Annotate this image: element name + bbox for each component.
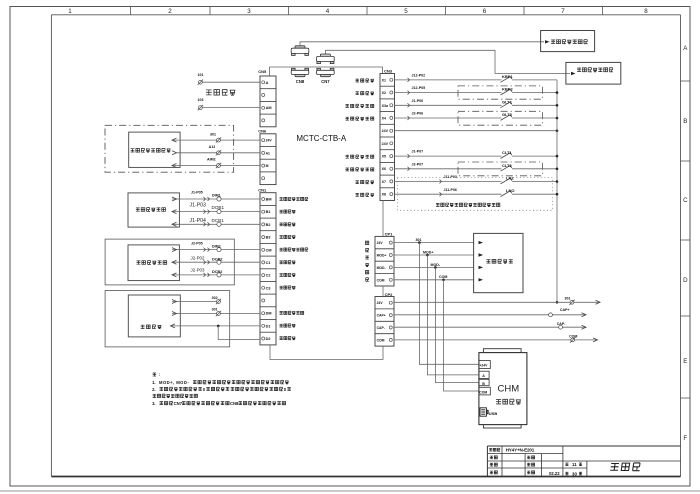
wire weighing AIM2 to CN6 M <box>172 158 260 169</box>
svg-text:AIM2: AIM2 <box>207 158 216 162</box>
CHM USB port icon <box>480 408 497 416</box>
svg-text:KBP2: KBP2 <box>502 87 513 92</box>
box arrival gong enclosure <box>105 291 230 347</box>
svg-text:CM: CM <box>266 248 272 252</box>
svg-text:CLT1: CLT1 <box>502 150 512 155</box>
svg-text:4: 4 <box>326 8 330 15</box>
svg-text:MCTC-CTB-A: MCTC-CTB-A <box>296 134 346 143</box>
junctions on switch return bus <box>556 91 559 303</box>
svg-text:6: 6 <box>483 8 487 15</box>
svg-text:COM: COM <box>479 390 487 394</box>
svg-text:X6: X6 <box>382 167 386 171</box>
wire cable from CN7 plug to command board <box>325 50 570 73</box>
wire CHM A drop <box>427 255 479 375</box>
svg-text:DOB1: DOB1 <box>212 205 225 210</box>
wire CP2 bottom to CN1 bottom <box>270 345 383 360</box>
svg-text:X1: X1 <box>382 78 386 82</box>
connector CN8 label <box>296 79 305 84</box>
wire CP2 COM out <box>394 334 598 342</box>
junction D1-D2 tie <box>217 325 220 328</box>
svg-text:J11-P06: J11-P06 <box>444 188 457 192</box>
lighting control label <box>206 89 235 95</box>
svg-text:J2-P03: J2-P03 <box>191 268 205 273</box>
svg-text:X7: X7 <box>382 180 386 184</box>
connector CN7 socket half <box>317 68 335 76</box>
connector CN3 terminal block <box>380 69 395 201</box>
svg-text:J1-P03: J1-P03 <box>190 203 207 209</box>
svg-text:101: 101 <box>198 73 204 77</box>
svg-text:D: D <box>683 277 688 284</box>
wire 24V feed to switch bus <box>395 130 558 132</box>
svg-text:CAP+: CAP+ <box>560 308 570 312</box>
frame column ticks <box>131 7 603 15</box>
svg-text:F: F <box>683 435 687 442</box>
wire CP1 MOD+ to display board <box>394 250 474 255</box>
svg-text:0: 0 <box>284 387 287 392</box>
svg-text:B1: B1 <box>266 210 271 214</box>
svg-text:D2: D2 <box>266 337 271 341</box>
svg-text:24V: 24V <box>266 139 273 143</box>
svg-text:103: 103 <box>198 98 204 102</box>
svg-text:J2-P07: J2-P07 <box>412 162 424 166</box>
connector CN7 label <box>321 79 330 84</box>
svg-text:+24V: +24V <box>480 364 489 368</box>
svg-text:HY4Y+N-E201: HY4Y+N-E201 <box>506 448 535 453</box>
wire X8 overload signal J11-P06 switch LNO <box>395 188 558 197</box>
box analog load weighing device dash-dot enclosure <box>105 125 234 172</box>
box main operation panel command board <box>566 62 621 84</box>
svg-text:X8: X8 <box>382 193 386 197</box>
svg-text:CN3: CN3 <box>384 69 393 74</box>
wire CP2 CAP+ out <box>394 308 586 317</box>
CN1 terminal function labels <box>280 197 308 339</box>
svg-text:301: 301 <box>565 296 571 300</box>
wire top bus from CN5 to CN3 <box>269 67 382 76</box>
wire CP1 to CP2 stem <box>382 286 384 297</box>
wire front door DIM1 J1-P05 to CN1 BM <box>172 190 260 201</box>
svg-text:C3: C3 <box>266 286 271 290</box>
wire cable from CN8 plug to command board <box>300 42 544 46</box>
connector CP2 terminal block <box>375 292 394 346</box>
wire arrival gong 301 to CN1 DM <box>172 308 260 317</box>
wire rear door DCB2 J2-P03 to CN1 C2 <box>172 268 260 277</box>
connector CN6 terminal block <box>258 129 276 185</box>
svg-text:J1-P04: J1-P04 <box>190 218 207 224</box>
svg-text:COM: COM <box>569 334 577 338</box>
junction CP1 24V tap <box>418 241 421 244</box>
svg-text:CN7: CN7 <box>321 79 330 84</box>
svg-text:24V: 24V <box>377 241 384 245</box>
svg-text:M: M <box>266 164 269 168</box>
svg-text:MOD+, MOD-: MOD+, MOD- <box>159 380 189 385</box>
MCTC-CTB-A board label <box>296 134 346 143</box>
svg-text:LNZ: LNZ <box>506 176 514 181</box>
box auxiliary operation panel command board <box>541 31 595 52</box>
svg-text:CLT2: CLT2 <box>502 163 512 168</box>
svg-text:0: 0 <box>203 387 206 392</box>
title block date row <box>490 471 582 477</box>
svg-text:5: 5 <box>404 8 408 15</box>
svg-text:302: 302 <box>212 296 218 300</box>
svg-text:J2-P02: J2-P02 <box>191 255 205 260</box>
wire switch return bus <box>556 80 558 302</box>
svg-text:DIM1: DIM1 <box>212 194 221 198</box>
svg-text:B: B <box>482 382 485 386</box>
wire X3o front door open limit J1-P06 switch GLT1 <box>395 99 558 108</box>
junction 24V bus <box>556 129 559 132</box>
svg-text:DM: DM <box>266 312 272 316</box>
car display communication vertical label <box>365 241 368 281</box>
box car display board <box>474 233 523 292</box>
svg-text:BM: BM <box>266 198 272 202</box>
wire rear door DIM2 J2-P05 to CN1 CM <box>172 242 260 252</box>
svg-text:2.: 2. <box>152 387 156 392</box>
wire CP2 24V out 301 <box>394 296 600 305</box>
wire rear door DOB2 J2-P02 to CN1 C1 <box>172 255 260 264</box>
svg-text:CN8: CN8 <box>230 401 239 406</box>
wire X2 rear door light curtain J12-P05 switch KBP2 <box>395 86 558 95</box>
svg-text:KBP1: KBP1 <box>502 74 513 79</box>
notes text <box>152 372 291 406</box>
title block grid <box>487 446 680 477</box>
title block design row <box>490 456 535 459</box>
title block drawing name car top board <box>610 463 640 471</box>
wire jumper D1 to D2 <box>218 326 260 340</box>
wire arrival gong signal from CN1 D1 <box>171 324 261 328</box>
connector CP1 terminal block <box>375 232 394 286</box>
connector CN8 plug half <box>291 46 309 56</box>
svg-text:C1: C1 <box>266 261 271 265</box>
svg-text:A: A <box>482 374 485 378</box>
svg-text:USB: USB <box>489 411 498 416</box>
title block check row <box>490 462 582 467</box>
dash-dot enclosure CLT2 <box>458 162 542 176</box>
frame row ticks <box>681 81 691 398</box>
dash-dot enclosure GLT2 <box>458 111 542 125</box>
svg-text:GLT1: GLT1 <box>502 99 513 104</box>
svg-text:X3o: X3o <box>382 104 389 108</box>
svg-text:MOD+: MOD+ <box>377 254 387 258</box>
box rear door controller enclosure <box>105 239 234 285</box>
svg-text:B3: B3 <box>266 236 271 240</box>
svg-text:GLT2: GLT2 <box>502 112 513 117</box>
wire lighting to CN5 A with cable marker 101 <box>198 73 261 85</box>
page bottom scan line <box>0 490 700 492</box>
wire front door DOB1 J1-P03 to CN1 B1 <box>172 203 260 214</box>
svg-text:CN6: CN6 <box>258 129 267 134</box>
svg-text:J2-P05: J2-P05 <box>191 242 203 246</box>
svg-text:CN7: CN7 <box>174 401 183 406</box>
wire CHM B drop <box>435 267 479 382</box>
CN3 terminal function labels <box>346 79 374 197</box>
wire X7 full load signal J11-P03 switch LNZ <box>395 175 558 184</box>
svg-text:D1: D1 <box>266 324 271 328</box>
svg-text:301: 301 <box>212 308 218 312</box>
svg-text:E: E <box>683 358 687 365</box>
wire CHM 24V drop <box>419 243 479 365</box>
connector CN5 terminal block <box>258 69 276 127</box>
svg-text:C2: C2 <box>266 274 271 278</box>
connector CN1 terminal block <box>258 187 276 345</box>
svg-text:CHM: CHM <box>498 383 520 394</box>
svg-text:DOB2: DOB2 <box>212 258 223 262</box>
svg-text:COM: COM <box>377 278 385 282</box>
svg-text:301: 301 <box>210 132 216 136</box>
svg-text:B2: B2 <box>266 223 271 227</box>
svg-text:X5: X5 <box>382 155 386 159</box>
svg-text:J1-P05: J1-P05 <box>191 190 203 194</box>
svg-text:A1: A1 <box>266 151 270 155</box>
title block part number row <box>489 448 535 453</box>
frame column numbers 1-8 <box>68 8 648 15</box>
svg-text:A: A <box>266 81 269 85</box>
svg-text:A12: A12 <box>209 145 216 149</box>
wire CP1 MOD- to display board <box>394 263 474 268</box>
svg-text:B: B <box>683 118 687 125</box>
svg-text:CAP+: CAP+ <box>377 314 386 318</box>
svg-text:1: 1 <box>68 8 72 15</box>
svg-text:301: 301 <box>416 238 422 242</box>
svg-text:X2: X2 <box>382 91 386 95</box>
wire front door DCB1 J1-P04 to CN1 B2 <box>172 218 260 227</box>
connector CN8 socket half <box>291 68 309 76</box>
connector CN7 plug half <box>317 54 335 64</box>
junction CP1 COM tap <box>442 279 445 282</box>
wire CP2 CAP- out <box>394 322 586 329</box>
junction CP1 MOD+ tap <box>426 254 429 257</box>
wire CP1 COM to display board <box>394 275 474 280</box>
svg-text:24V: 24V <box>382 129 389 133</box>
box CHM voice station <box>479 349 527 428</box>
wire arrival gong 302 stub <box>172 296 221 304</box>
svg-text:AM: AM <box>266 106 272 110</box>
box arrival gong <box>128 295 180 337</box>
svg-text:1.: 1. <box>152 380 156 385</box>
svg-text:CAP-: CAP- <box>377 326 385 330</box>
box rear door controller <box>128 245 179 281</box>
wire X5 front door close limit J1-P07 switch CLT1 <box>395 150 558 159</box>
svg-text:CN5: CN5 <box>258 69 267 74</box>
dash-dot enclosure KBP2 <box>458 86 542 99</box>
svg-text:MOD-: MOD- <box>377 266 386 270</box>
dotted enclosure weighing on car bottom <box>397 178 552 211</box>
wire CN3 to CP1 stem <box>382 201 384 237</box>
svg-text:2: 2 <box>168 8 172 15</box>
svg-text:J12-P02: J12-P02 <box>412 74 426 78</box>
wire weighing 301 to CN6 24V <box>172 132 260 143</box>
wire CHM COM drop <box>444 280 479 391</box>
wire X1 front door light curtain J12-P02 switch KBP1 <box>395 74 558 83</box>
svg-text:3: 3 <box>247 8 251 15</box>
svg-text:LNO: LNO <box>506 188 514 193</box>
box analog load weighing device <box>129 132 180 167</box>
svg-text:J1-P06: J1-P06 <box>412 99 424 103</box>
svg-text:8: 8 <box>644 8 648 15</box>
junction CP1 MOD- tap <box>434 266 437 269</box>
wire lighting to CN5 AM with cable marker 103 <box>198 98 261 110</box>
svg-text:11: 11 <box>572 462 577 467</box>
wire CP1 24V to display board with tap 301 <box>394 238 474 243</box>
svg-text:02.22: 02.22 <box>549 471 560 476</box>
wire X4 rear door open limit J2-P06 switch GLT2 <box>395 112 558 121</box>
svg-text:X4: X4 <box>382 116 386 120</box>
svg-text:C: C <box>683 197 688 204</box>
svg-text::: : <box>159 372 161 377</box>
svg-text:DCB1: DCB1 <box>212 218 225 223</box>
box front door controller <box>128 193 179 227</box>
svg-text:COM: COM <box>377 338 385 342</box>
svg-text:CN8: CN8 <box>296 79 305 84</box>
wire weighing A12 to CN6 A1 <box>172 145 260 156</box>
svg-text:DIM2: DIM2 <box>212 244 221 248</box>
svg-text:MOD+: MOD+ <box>423 250 433 254</box>
svg-text:3.: 3. <box>152 401 156 406</box>
svg-text:7: 7 <box>561 8 565 15</box>
svg-text:A: A <box>683 45 688 52</box>
svg-text:24V: 24V <box>377 301 384 305</box>
frame row letters A-F <box>683 45 688 442</box>
svg-text:CN1: CN1 <box>258 187 267 192</box>
svg-text:J1-P07: J1-P07 <box>412 150 424 154</box>
svg-text:J2-P06: J2-P06 <box>412 112 424 116</box>
wire X6 rear door close limit J2-P07 switch CLT2 <box>395 162 558 171</box>
svg-text:24V: 24V <box>382 142 389 146</box>
svg-text:30: 30 <box>572 471 577 476</box>
svg-text:DCB2: DCB2 <box>212 270 222 274</box>
svg-text:J12-P05: J12-P05 <box>412 86 426 90</box>
